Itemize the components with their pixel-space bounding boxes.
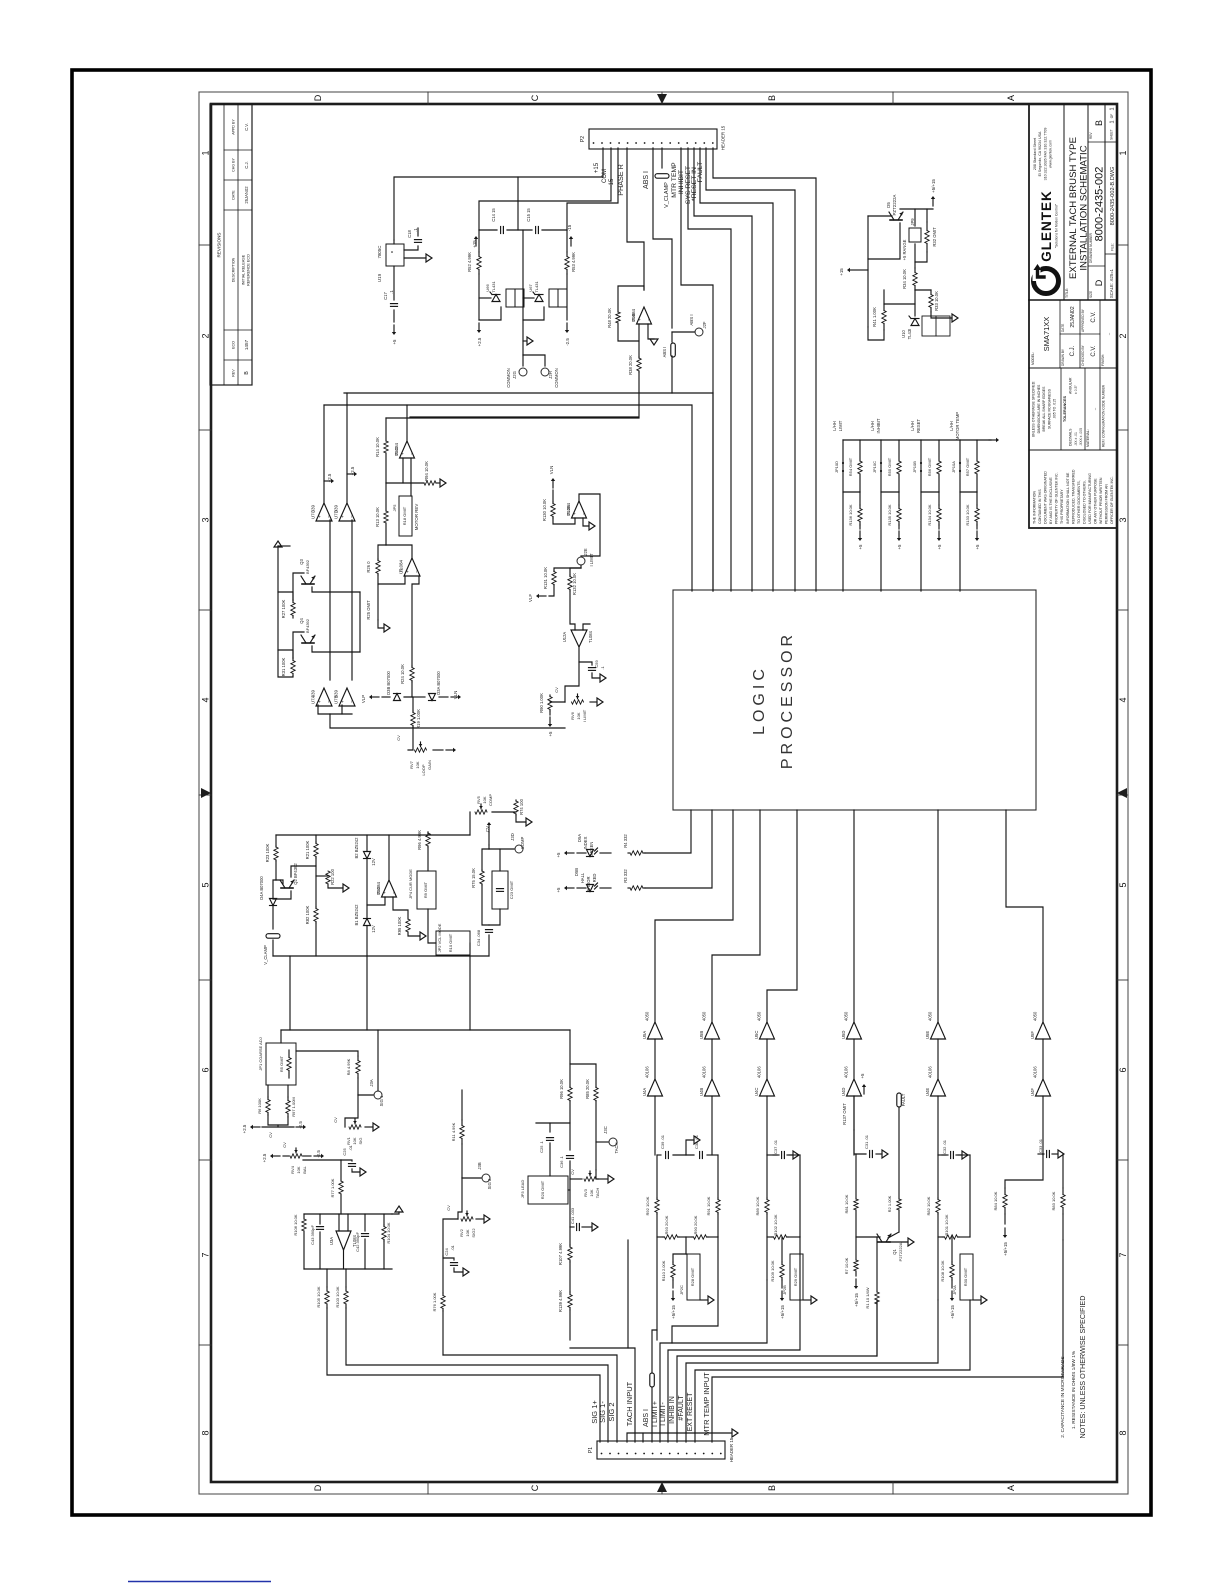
resistor R74 100: [492, 811, 516, 813]
svg-text:R76 1.00K: R76 1.00K: [432, 1292, 437, 1311]
resistor R91 10.0K inline: [717, 1155, 719, 1198]
svg-text:-2.5: -2.5: [298, 1121, 303, 1129]
svg-text:SIG2: SIG2: [471, 1228, 476, 1238]
svg-text:10K: 10K: [576, 712, 581, 719]
svg-text:C14 15: C14 15: [491, 208, 496, 222]
svg-text:D5: D5: [886, 202, 891, 208]
svg-text:C18: C18: [407, 229, 412, 237]
sheet outer border frame: [199, 92, 1128, 1494]
svg-text:J3D: J3D: [510, 833, 515, 840]
svg-text:WITHOUT PRIOR WRITTEN: WITHOUT PRIOR WRITTEN: [1099, 477, 1103, 524]
svg-text:CV: CV: [282, 1142, 287, 1148]
wire tach divider to J3A node: [569, 1030, 571, 1064]
pot RV5 10K COMP: [475, 810, 487, 814]
svg-text:+: +: [400, 452, 405, 455]
svg-text:SHEET: SHEET: [1110, 129, 1114, 140]
capacitor C59 .1: [579, 647, 592, 665]
comparator U7C 339: [316, 503, 332, 521]
svg-text:10K: 10K: [415, 761, 420, 768]
ground arrow U3A network: [392, 1212, 399, 1214]
svg-text:RV7: RV7: [409, 760, 414, 768]
svg-text:D5A: D5A: [577, 834, 582, 842]
svg-text:ECO: ECO: [232, 341, 236, 349]
svg-text:C31 .01: C31 .01: [864, 1134, 869, 1149]
svg-text:R18 OMIT: R18 OMIT: [402, 506, 407, 525]
svg-text:+2.5: +2.5: [327, 473, 332, 482]
svg-text:4: 4: [1118, 697, 1128, 702]
svg-text:3: 3: [201, 517, 211, 522]
svg-text:U4C: U4C: [754, 1088, 759, 1096]
svg-text:LOGIC: LOGIC: [751, 665, 768, 735]
resistor R92 10.0K inline: [656, 1155, 658, 1198]
resistor R8 4.99K: [356, 1061, 360, 1074]
group C rails: [854, 1130, 866, 1154]
jumper group JP10B RESET: [920, 440, 922, 591]
wire loop gain feed: [410, 393, 639, 417]
svg-text:DISCLOSED TO OTHERS,: DISCLOSED TO OTHERS,: [1083, 480, 1087, 524]
pot RV7 10K LOOP GAIN: [415, 748, 427, 752]
wire P2 SYS RESET staircase: [694, 148, 752, 591]
comparator U7A 339: [316, 688, 332, 706]
svg-text:JP10C: JP10C: [872, 461, 877, 473]
jumper JP2 VCL MODE with R10 OMIT: [436, 931, 470, 955]
svg-text:C.J.: C.J.: [1070, 345, 1076, 356]
svg-text:I LIMIT: I LIMIT: [582, 709, 587, 722]
svg-text:D: D: [313, 94, 323, 101]
resistor R56 OMIT: [938, 440, 940, 461]
connector P1 HEADER 15: [597, 1441, 725, 1459]
wire P2 +15 to U19 regulator: [394, 148, 603, 240]
svg-text:8: 8: [1118, 1430, 1128, 1435]
op-amp U9 TL084: [404, 558, 420, 576]
svg-text:12V: 12V: [371, 858, 376, 866]
svg-text:R13 10.0K: R13 10.0K: [375, 507, 380, 527]
svg-text:C.V.: C.V.: [244, 123, 249, 131]
svg-text:R8 4.99K: R8 4.99K: [346, 1058, 351, 1075]
jumper JP3 LEAD with R20 OMIT: [528, 1176, 568, 1204]
jack J2H COMMON: [523, 355, 545, 366]
svg-text:+: +: [405, 570, 410, 573]
svg-text:DATE: DATE: [232, 190, 236, 200]
svg-text:VLN: VLN: [453, 691, 458, 700]
svg-text:MOTOR REV: MOTOR REV: [414, 504, 419, 531]
long wire left bus lower: [324, 405, 692, 591]
wire LOGIC to U5D: [853, 810, 855, 1022]
svg-text:R23 100K: R23 100K: [265, 843, 270, 862]
resistor R85 20.0K: [594, 1088, 598, 1101]
svg-text:R32 OMIT: R32 OMIT: [932, 227, 937, 247]
hyperlink underline mark bottom left: [128, 1581, 271, 1583]
svg-text:RV4: RV4: [290, 1165, 295, 1173]
wire P1 TACH INPUT: [570, 1348, 635, 1442]
svg-text:VLP: VLP: [361, 695, 366, 703]
svg-text:P2: P2: [580, 136, 586, 142]
svg-text:+5/+15: +5/+15: [671, 1305, 676, 1319]
resistor R106 10.0K: [303, 1214, 305, 1219]
svg-text:1: 1: [1110, 107, 1116, 110]
svg-text:ERROR: ERROR: [586, 876, 591, 891]
resistor R34 10.0K: [914, 262, 916, 268]
power +2.5 arrow RV4 left: [283, 1155, 289, 1157]
svg-text:C36 .1: C36 .1: [559, 1155, 564, 1168]
svg-text:R95 100K: R95 100K: [397, 916, 402, 935]
resistor R102 10.0K rail2: [767, 1236, 772, 1238]
comparator outputs to loop gain rail: [318, 705, 352, 714]
svg-text:R107 4.99K: R107 4.99K: [558, 1243, 563, 1265]
buffer U4D 40106: [853, 1039, 855, 1079]
svg-text:R82 10.0K: R82 10.0K: [926, 1196, 931, 1215]
power -2.5 arrow: [566, 323, 568, 330]
svg-text:–: –: [1106, 332, 1111, 335]
svg-text:CV: CV: [396, 735, 401, 741]
svg-text:R4 332: R4 332: [623, 834, 628, 848]
transistor Q3 BF4392: [302, 583, 314, 585]
shunt regulator U67 TL431: [523, 297, 534, 299]
resistor R77 1.00K: [340, 1160, 342, 1181]
resistor R57 OMIT: [976, 440, 978, 461]
svg-text:U3A: U3A: [329, 1237, 334, 1245]
resistor R82 100K: [314, 909, 318, 922]
svg-text:25JAN02: 25JAN02: [244, 186, 249, 204]
svg-text:R85 20.0K: R85 20.0K: [585, 1079, 590, 1099]
svg-text:JP2A: JP2A: [952, 1285, 957, 1295]
wire ABS I down to bus: [672, 356, 713, 393]
svg-text:R105 10.0K: R105 10.0K: [316, 1286, 321, 1307]
svg-text:U67: U67: [528, 284, 533, 292]
svg-text:.XXX ± .005: .XXX ± .005: [1079, 428, 1083, 446]
svg-text:R109 10.0K: R109 10.0K: [770, 1260, 775, 1281]
capacitor C25 .01: [341, 1160, 352, 1161]
right vertical group D: [969, 1155, 971, 1237]
buffer U5F 4050: [1036, 1022, 1051, 1039]
svg-text:R7 10.0K: R7 10.0K: [844, 1257, 849, 1274]
svg-text:10K: 10K: [296, 1166, 301, 1173]
svg-text:-2.5: -2.5: [316, 1150, 321, 1158]
resistor R76 1.00K: [442, 1256, 444, 1293]
svg-text:.01: .01: [450, 1244, 455, 1250]
svg-text:10K: 10K: [352, 1137, 357, 1144]
resistor R32 OMIT: [926, 209, 928, 222]
svg-text:JP9: JP9: [910, 218, 915, 226]
capacitor C17: [393, 266, 395, 300]
ground arrow U12B: [583, 518, 589, 526]
op-amp U12B TL084: [572, 501, 587, 518]
svg-text:TL084: TL084: [631, 308, 636, 321]
svg-text:PERMISSION FROM AN: PERMISSION FROM AN: [1105, 484, 1109, 524]
resistor R14 10.0K: [385, 418, 387, 441]
svg-text:12V: 12V: [371, 925, 376, 933]
resistor R97 1.00M: [286, 1101, 290, 1114]
capacitor C24 .01: [443, 1258, 454, 1260]
svg-text:40106: 40106: [844, 1066, 849, 1078]
svg-text:FAULT: FAULT: [901, 1093, 906, 1106]
wire LOGIC to U5E: [937, 810, 939, 1022]
svg-text:El Segundo, CA 90234 USA: El Segundo, CA 90234 USA: [1038, 131, 1042, 176]
svg-text:1: 1: [201, 150, 211, 155]
svg-text:4050: 4050: [702, 1011, 707, 1021]
svg-text:U5E: U5E: [925, 1031, 930, 1039]
power -15 tap arrow: [570, 239, 572, 246]
svg-text:−: −: [409, 452, 414, 455]
svg-text:R94 10.0K: R94 10.0K: [424, 461, 429, 481]
svg-text:R131 10.0K: R131 10.0K: [543, 567, 548, 589]
svg-text:SIG: SIG: [358, 1138, 363, 1145]
resistor R89 10.0K inline: [766, 1155, 768, 1198]
svg-text:INDEX: INDEX: [583, 836, 588, 849]
capacitor C26 .1 lead: [536, 1122, 570, 1124]
resistor R110 2.00K: [673, 1237, 686, 1262]
resistor R23 100K: [274, 847, 278, 860]
wire P1 SIG 1- to R103: [346, 1308, 608, 1442]
capacitor C36 .1: [569, 1101, 571, 1150]
resistor R26 0: [378, 575, 405, 584]
wire LOGIC to U5A: [655, 810, 733, 1022]
jack J2G COMMON: [522, 355, 524, 366]
svg-text:10K: 10K: [465, 1229, 470, 1236]
jumper JP2C with R28 OMIT: [687, 1254, 700, 1300]
wire P1 SIG 1+ to R105: [327, 1308, 600, 1442]
resistor R13 10.0K: [385, 483, 387, 511]
svg-text:U10: U10: [901, 329, 906, 337]
svg-text:EXT RESET: EXT RESET: [687, 1392, 694, 1431]
ground arrow at P1: [627, 1433, 732, 1442]
svg-text:.1: .1: [413, 228, 418, 232]
fuse oval ABS I: [671, 332, 673, 342]
svg-text:R20 OMIT: R20 OMIT: [540, 1180, 545, 1199]
svg-text:CV: CV: [333, 1117, 338, 1123]
svg-text:VLF: VLF: [528, 594, 533, 602]
svg-text:−: −: [349, 700, 354, 703]
svg-text:U5B: U5B: [699, 1031, 704, 1039]
op-amp U3A TL084: [336, 1231, 351, 1250]
svg-text:R91 10.0K: R91 10.0K: [706, 1196, 711, 1215]
svg-text:R132 10.0K: R132 10.0K: [572, 573, 577, 595]
svg-text:D5B: D5B: [574, 868, 579, 876]
power +2.5 arrow U7C: [323, 405, 325, 503]
svg-text:R90 1.00K: R90 1.00K: [539, 693, 544, 713]
svg-text:TL084: TL084: [399, 559, 404, 572]
buffer U4C 40106: [766, 1039, 768, 1079]
rotated landscape schematic sheet: [199, 92, 1128, 1494]
resistor R55 OMIT: [898, 440, 900, 461]
svg-text:L/HH: L/HH: [910, 421, 915, 431]
jack J3C TACH: [595, 1101, 597, 1170]
svg-text:COM: COM: [602, 169, 608, 183]
svg-text:+: +: [382, 891, 387, 894]
buffer U4B 40106: [711, 1039, 713, 1079]
svg-text:R57 OMIT: R57 OMIT: [965, 457, 970, 476]
svg-text:5: 5: [1118, 882, 1128, 887]
svg-text:JP10B: JP10B: [912, 461, 917, 473]
svg-text:2: 2: [1118, 333, 1128, 338]
svg-text:C43 390pF: C43 390pF: [310, 1225, 315, 1245]
svg-text:OF: OF: [1110, 114, 1114, 118]
power +5/+15 arrow group A: [672, 1280, 674, 1288]
zener B2 BZ5242 12V: [366, 835, 368, 851]
svg-text:25JAN02: 25JAN02: [1070, 306, 1076, 327]
wire P2 -15 to rail: [567, 148, 618, 230]
ground arrow center: [523, 340, 527, 342]
zone number dividers: [199, 1344, 211, 1346]
svg-text:R104 10.0K: R104 10.0K: [386, 1222, 391, 1243]
svg-text:4050: 4050: [844, 1011, 849, 1021]
svg-text:U4A: U4A: [642, 1088, 647, 1096]
svg-text:R56 OMIT: R56 OMIT: [927, 457, 932, 476]
svg-text:+5: +5: [556, 887, 561, 893]
shunt regulator U66 TL431: [479, 297, 491, 299]
wire P2 pin15 staircase: [713, 148, 816, 591]
svg-text:U12A: U12A: [562, 632, 567, 643]
svg-text:-15: -15: [609, 178, 615, 187]
wire P2 MTR TEMP staircase: [681, 148, 713, 591]
svg-text:INITIAL RELEASE: INITIAL RELEASE: [242, 254, 246, 285]
svg-text:B2 BZ5242: B2 BZ5242: [354, 837, 359, 859]
svg-text:R135 10.0K: R135 10.0K: [887, 504, 892, 525]
resistor R132 10.0K: [570, 568, 581, 575]
wire TL431 anode returns: [479, 307, 501, 320]
svg-text:+5: +5: [975, 544, 980, 550]
jack J2E I LIMIT: [577, 557, 585, 565]
resistor R105 10.0K: [326, 1269, 328, 1287]
title block outline: [1029, 104, 1117, 528]
svg-text:JP4 CUR MODE: JP4 CUR MODE: [408, 869, 413, 899]
svg-text:R102 10.0K: R102 10.0K: [773, 1214, 778, 1235]
coarse adjust jumper JP1 with R5 OMIT: [280, 1030, 282, 1043]
svg-text:www.glentek.com: www.glentek.com: [1049, 140, 1053, 168]
svg-text:U66: U66: [485, 284, 490, 292]
svg-text:SIG 1: SIG 1: [379, 1095, 384, 1106]
jack J3A SIG 1: [358, 1094, 373, 1096]
wire P2 FAULT staircase: [706, 148, 795, 591]
resistor R93 20.0K rail2: [657, 1236, 663, 1238]
bottom rail clamp section: [281, 1029, 570, 1031]
svg-text:UNLESS OTHERWISE SPECIFIED:: UNLESS OTHERWISE SPECIFIED:: [1032, 381, 1036, 438]
svg-text:R48 20.0K: R48 20.0K: [607, 308, 612, 328]
svg-text:R90 20.0K: R90 20.0K: [693, 1215, 698, 1234]
jumper JP2B with R29 OMIT: [790, 1254, 803, 1300]
svg-text:Q4: Q4: [299, 618, 304, 624]
svg-text:L/HH: L/HH: [870, 421, 875, 431]
svg-text:10K: 10K: [482, 796, 487, 803]
regulator U19 7805C: [386, 244, 404, 266]
resistor R130 10.0K: [552, 490, 554, 502]
svg-text:TL431: TL431: [491, 281, 496, 293]
svg-text:DRAWN BY: DRAWN BY: [1061, 348, 1065, 366]
svg-text:BAL: BAL: [302, 1165, 307, 1173]
resistor R137 OMIT: [853, 1096, 855, 1130]
svg-text:+5/+15: +5/+15: [931, 179, 936, 193]
svg-text:+2.5: +2.5: [262, 1153, 267, 1162]
svg-text:MTR TEMP: MTR TEMP: [671, 162, 678, 198]
resistor R131 10.0K: [554, 568, 581, 571]
jumper group rail: [843, 439, 991, 441]
resistor R31 100K: [291, 661, 295, 674]
power +2.5 arrow: [478, 323, 480, 330]
svg-text:R110 2.00K: R110 2.00K: [661, 1260, 666, 1281]
svg-text:R97 1.00M: R97 1.00M: [291, 1097, 296, 1117]
svg-text:FILE:: FILE:: [1111, 243, 1115, 251]
svg-text:C.V.: C.V.: [1091, 311, 1097, 322]
svg-text:D: D: [313, 1484, 323, 1491]
svg-text:COMP: COMP: [520, 837, 525, 850]
wire center vertical common: [522, 230, 524, 355]
svg-text:TL084: TL084: [566, 502, 571, 515]
svg-text:.005 TO .015: .005 TO .015: [1053, 399, 1057, 419]
transistor Q2 BF4392: [281, 887, 293, 889]
svg-text:I LIMIT-: I LIMIT-: [660, 1401, 667, 1425]
svg-text:R22 100: R22 100: [330, 868, 335, 885]
svg-text:R136 10.0K: R136 10.0K: [848, 504, 853, 525]
svg-text:CV: CV: [485, 826, 490, 832]
resistor R108 10.0K: [951, 1237, 953, 1262]
svg-text:DATE: DATE: [1061, 324, 1065, 332]
svg-text:R28 OMIT: R28 OMIT: [690, 1267, 695, 1286]
svg-text:R92 10.0K: R92 10.0K: [645, 1196, 650, 1215]
svg-text:CHG BY: CHG BY: [232, 158, 236, 172]
svg-text:R31 100K: R31 100K: [281, 657, 286, 676]
middle rail clamp section: [273, 955, 489, 957]
svg-text:DECIMALS: DECIMALS: [1069, 428, 1073, 446]
svg-text:−: −: [581, 512, 586, 515]
svg-text:J3B: J3B: [477, 1162, 482, 1169]
svg-text:R34 10.0K: R34 10.0K: [902, 269, 907, 289]
svg-text:APPD BY: APPD BY: [232, 119, 236, 135]
svg-text:R52 4.99K: R52 4.99K: [467, 252, 472, 272]
svg-text:R130 10.0K: R130 10.0K: [542, 499, 547, 521]
cross-coupling wires: [293, 573, 304, 600]
svg-text:40106: 40106: [757, 1066, 762, 1078]
svg-text:+15: +15: [594, 162, 600, 173]
svg-text:R19 1.00K: R19 1.00K: [416, 709, 421, 729]
wire P1 #FAULT: [686, 1300, 938, 1442]
svg-text:BREAK ALL SHARP EDGES: BREAK ALL SHARP EDGES: [1042, 386, 1046, 432]
transistor D5 PZT2222A: [890, 219, 902, 221]
svg-text:OFFICER OF GLENTEK INC.: OFFICER OF GLENTEK INC.: [1110, 476, 1114, 524]
resistor R6 100K: [266, 1100, 270, 1113]
svg-text:4050: 4050: [757, 1011, 762, 1021]
svg-text:4050: 4050: [928, 1011, 933, 1021]
svg-text:7805C: 7805C: [377, 246, 382, 259]
svg-text:C17: C17: [383, 291, 388, 299]
svg-text:.1: .1: [600, 666, 605, 670]
svg-text:6: 6: [201, 1067, 211, 1072]
wire LOGIC to U5B: [712, 810, 760, 1022]
power +5 arrow below C17: [393, 325, 395, 332]
wire P1 I LIMIT-: [668, 1237, 800, 1442]
svg-text:JP2B: JP2B: [782, 1285, 787, 1295]
svg-text:R54 OMIT: R54 OMIT: [848, 457, 853, 476]
jack J3D COMP: [489, 848, 514, 850]
resistor R90 1.00K: [565, 662, 579, 702]
svg-text:R74 100: R74 100: [519, 798, 524, 815]
capacitor C41 .033: [570, 1226, 574, 1228]
svg-text:HALL: HALL: [580, 872, 585, 883]
svg-text:10K: 10K: [589, 1189, 594, 1196]
svg-text:CV: CV: [554, 687, 559, 693]
svg-text:C34 .068: C34 .068: [476, 929, 481, 946]
svg-text:R103 10.0K: R103 10.0K: [335, 1286, 340, 1307]
svg-text:−: −: [391, 891, 396, 894]
ground arrow U9B +input: [648, 324, 654, 339]
svg-text:COMP: COMP: [488, 794, 493, 806]
svg-text:339: 339: [311, 504, 316, 512]
net arrow VLN right: [439, 696, 448, 698]
resistor R136 10.0K: [859, 492, 861, 505]
wire P1 I LIMIT+: [660, 1280, 767, 1442]
svg-text:1: 1: [1118, 150, 1128, 155]
svg-text:+15: +15: [472, 240, 477, 248]
svg-text:NOTES: UNLESS OTHERWISE SPECIF: NOTES: UNLESS OTHERWISE SPECIFIED: [1078, 1296, 1087, 1439]
